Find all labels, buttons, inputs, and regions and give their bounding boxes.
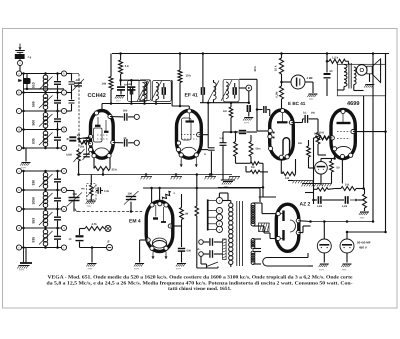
band switch line <box>78 74 80 148</box>
svg-text:7777: 7777 <box>309 98 315 101</box>
volume pot 0.5M <box>78 149 80 151</box>
electrolytic C 50MF b <box>346 232 348 239</box>
svg-text:7777: 7777 <box>360 217 366 220</box>
svg-text:PM: PM <box>81 188 84 191</box>
svg-text:50k: 50k <box>80 146 85 149</box>
phono bottom wire <box>80 247 107 249</box>
resistor 1M plate <box>281 74 283 86</box>
svg-text:da 5,8 a 12,5 Mc/s, e da 24,5: da 5,8 a 12,5 Mc/s, e da 24,5 a 26 Mc/s.… <box>47 280 353 286</box>
electrolytic C 50MF a <box>323 222 325 240</box>
svg-text:50k: 50k <box>298 142 303 145</box>
EM4 slant resistor <box>162 191 173 201</box>
svg-text:AZ 2: AZ 2 <box>300 202 311 208</box>
svg-text:EM 4: EM 4 <box>129 218 141 224</box>
grid resistor v <box>313 118 318 120</box>
antenna coil bank section 1 <box>23 74 25 149</box>
svg-text:r: r <box>64 246 65 250</box>
svg-text:7777: 7777 <box>88 268 94 271</box>
mains shield <box>223 239 227 260</box>
pickup pot box <box>87 184 97 200</box>
HT center tap shield <box>259 223 270 232</box>
svg-text:4 MF: 4 MF <box>307 77 313 80</box>
B+ top rail <box>112 53 389 55</box>
svg-text:1M: 1M <box>251 166 254 169</box>
bank coupling caps <box>71 74 73 81</box>
primary tap selector <box>208 200 217 202</box>
det gnd cap <box>247 105 249 112</box>
wire grid to 4699 <box>317 150 319 155</box>
jack terminal minus <box>107 245 113 251</box>
cathode network 4699 <box>334 151 336 159</box>
antenna terminal 1 <box>18 61 23 66</box>
svg-text:500: 500 <box>123 110 128 113</box>
svg-text:0,5M: 0,5M <box>317 205 322 208</box>
EF41 cathode leads <box>180 157 182 166</box>
heater loop <box>263 258 308 267</box>
coil bank section 2 <box>23 171 25 263</box>
grid return wire <box>313 147 315 193</box>
svg-text:22 k: 22 k <box>112 168 118 172</box>
EM4 left lead <box>140 239 149 241</box>
terminal h <box>134 140 139 145</box>
trimmer pad a <box>83 137 90 139</box>
svg-text:1M: 1M <box>185 213 189 216</box>
svg-text:7777: 7777 <box>244 122 250 125</box>
IF2 boxed unit <box>223 79 239 102</box>
EM4 feed wires <box>151 188 153 203</box>
resistor 2M <box>78 139 80 143</box>
resistor 50k v <box>308 140 310 146</box>
mains terminals <box>199 240 204 245</box>
speaker box right wire <box>385 54 387 65</box>
wire rail to R 10k <box>179 54 181 71</box>
svg-text:14k: 14k <box>102 82 107 86</box>
svg-text:330: 330 <box>32 180 36 186</box>
svg-text:VEGA - Mod. 651. Onde medie da: VEGA - Mod. 651. Onde medie da 520 a 162… <box>48 275 354 281</box>
resistor 1M det <box>230 103 232 107</box>
svg-text:100: 100 <box>128 192 133 195</box>
wire rail to R 5k <box>120 54 122 61</box>
svg-text:935: 935 <box>32 237 36 243</box>
EM4 cathode arrows <box>152 252 154 260</box>
svg-text:7777: 7777 <box>176 268 182 271</box>
right vertical wire b <box>372 54 374 222</box>
tube EM4 <box>146 201 173 251</box>
tube EBC41 <box>270 110 294 159</box>
AZ2 output wire <box>298 220 310 223</box>
EF41 bypass cap 6 <box>199 149 209 151</box>
trimmer 440 <box>74 82 82 84</box>
svg-text:7 g: 7 g <box>28 56 32 59</box>
grid cap 500 <box>110 116 123 118</box>
svg-text:CCH42: CCH42 <box>88 93 106 99</box>
IF2 coil with trimmer <box>214 83 217 100</box>
svg-text:5 k: 5 k <box>125 64 129 68</box>
svg-text:7777: 7777 <box>19 269 25 272</box>
wire to transformer area <box>196 175 198 207</box>
wire R10k to EF41 <box>179 83 181 107</box>
4699 anode wire <box>353 131 386 133</box>
resistor 10k <box>178 70 182 83</box>
svg-text:7777: 7777 <box>342 269 348 272</box>
section 2 ground <box>25 248 27 264</box>
output transformer <box>344 65 347 87</box>
det coupling cap <box>230 128 232 132</box>
mains caps <box>203 241 209 243</box>
svg-text:E BC 41: E BC 41 <box>288 101 306 106</box>
primary tap bar <box>207 199 209 230</box>
detector terminal <box>246 85 252 91</box>
IF2 top to detector <box>239 78 257 80</box>
svg-text:553: 553 <box>32 218 36 224</box>
transformer core <box>236 201 238 266</box>
primary tap feed <box>218 193 220 197</box>
svg-text:1M: 1M <box>223 110 227 113</box>
svg-text:50+50 MF: 50+50 MF <box>357 241 371 245</box>
wire rail to R 30k <box>281 54 283 59</box>
svg-text:EF 41: EF 41 <box>185 93 199 99</box>
resistor 5k <box>119 60 123 74</box>
svg-text:10 k: 10 k <box>274 65 278 71</box>
det res h 2 <box>250 170 260 173</box>
mains switch <box>200 256 202 264</box>
osc node wire <box>120 74 122 80</box>
jack terminal X <box>105 226 111 232</box>
resistor 14k <box>109 77 113 90</box>
svg-text:0,2M: 0,2M <box>276 92 279 98</box>
speaker ground <box>369 74 371 82</box>
tone resistor <box>358 199 365 201</box>
band terminals right section 1 <box>61 71 66 76</box>
speaker <box>357 65 368 76</box>
tone cap b <box>328 199 344 201</box>
trimmer pad b <box>83 153 90 155</box>
svg-text:50: 50 <box>337 167 340 170</box>
speaker box <box>337 64 385 96</box>
svg-text:7777: 7777 <box>87 205 93 208</box>
EBC41 grid cap <box>257 109 263 111</box>
right vertical wire c <box>385 54 387 233</box>
rail junction dots <box>119 52 122 55</box>
svg-text:50~: 50~ <box>197 248 202 251</box>
long chassis hatch <box>302 183 321 185</box>
transformer primary winding <box>229 203 233 207</box>
tube 4699 <box>331 110 355 159</box>
transformer HT secondary <box>251 203 255 207</box>
svg-text:505: 505 <box>32 101 36 107</box>
osc coil unit 1 <box>139 80 151 101</box>
svg-text:50k: 50k <box>311 112 316 115</box>
heater bus hatch grounds <box>141 176 152 178</box>
svg-text:7777: 7777 <box>134 268 140 271</box>
HT leads to AZ2 <box>261 203 263 214</box>
B plus bus <box>311 221 374 223</box>
electrolytic 4MF <box>282 81 292 83</box>
section 1 ground <box>25 148 27 162</box>
svg-text:2M: 2M <box>77 134 80 137</box>
svg-text:30 k: 30 k <box>253 66 257 72</box>
pickup cap 0.05 <box>96 190 98 192</box>
osc padder cap 1 <box>120 80 122 86</box>
svg-text:10 K: 10 K <box>314 132 320 136</box>
svg-text:4699: 4699 <box>347 101 359 107</box>
wire rail to R 14k <box>110 54 112 77</box>
AVC dashed line <box>78 211 143 213</box>
svg-text:tatti chiusi viene mod. 1651.: tatti chiusi viene mod. 1651. <box>168 286 232 292</box>
osc padder cap 2 <box>130 80 132 86</box>
svg-text:500: 500 <box>32 120 36 126</box>
IF2 input cap <box>202 54 204 88</box>
svg-text:1050: 1050 <box>32 197 36 205</box>
resistor 30k <box>279 58 283 74</box>
tube CCH42 <box>91 111 114 159</box>
avc resistor b <box>250 135 252 142</box>
EM4 grid resistor 1M <box>170 225 181 227</box>
antenna <box>19 44 21 51</box>
filter loop wire <box>347 231 386 233</box>
transformer filament windings <box>251 239 255 243</box>
right vertical wire a <box>363 96 365 189</box>
band terminals right section 2 <box>61 168 66 173</box>
iron-core antenna coil <box>23 78 31 84</box>
svg-text:F: F <box>107 240 109 244</box>
coupling cap 0.1 <box>291 122 302 124</box>
4699 cathode stub <box>341 159 343 184</box>
svg-text:0,5M: 0,5M <box>66 154 72 157</box>
svg-text:140: 140 <box>285 177 290 180</box>
pot ground <box>90 196 92 201</box>
EF41 screen wire <box>199 134 209 136</box>
svg-text:10 k: 10 k <box>186 74 192 78</box>
svg-text:50m: 50m <box>256 148 262 151</box>
svg-text:935: 935 <box>32 138 36 144</box>
cap 250 at CCH42 grid <box>67 138 69 140</box>
tube EF41 <box>177 111 202 159</box>
osc coil unit 2 <box>152 81 171 102</box>
det res h 1M <box>243 162 250 164</box>
osc coil unit 1 <box>128 81 148 102</box>
grid terminal i <box>134 114 139 119</box>
EM4 cap 500 <box>178 248 185 250</box>
grid line under osc units <box>102 103 171 105</box>
tube AZ2 <box>276 204 299 251</box>
cap 25 to terminal <box>113 142 124 144</box>
svg-text:440: 440 <box>76 79 81 82</box>
svg-text:330: 330 <box>73 193 78 196</box>
cap 10 phono <box>79 229 81 236</box>
svg-text:510: 510 <box>32 82 36 88</box>
EBC41 cathode resistor 140 <box>280 159 282 174</box>
svg-text:0,1M: 0,1M <box>342 205 347 208</box>
svg-text:450 V: 450 V <box>359 246 367 250</box>
cathode resistor 22k <box>93 158 95 169</box>
svg-text:7777: 7777 <box>21 167 27 170</box>
IF2 bottom line <box>200 102 249 104</box>
det gnd <box>222 149 224 181</box>
svg-text:j: j <box>63 109 65 113</box>
svg-text:0,05: 0,05 <box>104 190 109 193</box>
tone cap a <box>314 199 318 201</box>
svg-text:7777: 7777 <box>319 269 325 272</box>
svg-text:500: 500 <box>187 250 192 253</box>
wire R14k down <box>110 90 112 104</box>
det lower wire <box>218 187 263 189</box>
EBC41 ground hatch <box>293 180 314 182</box>
avc resistor a <box>235 132 237 142</box>
svg-text:0,1: 0,1 <box>303 112 307 115</box>
wire unit2 to EF41 grid <box>170 80 173 82</box>
heater bus <box>79 174 232 176</box>
svg-text:4,7k: 4,7k <box>92 223 98 226</box>
